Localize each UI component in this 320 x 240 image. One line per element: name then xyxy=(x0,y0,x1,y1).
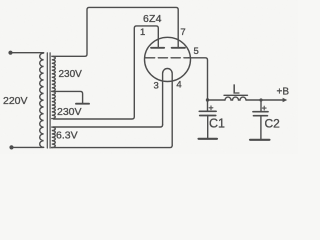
inductor L winding xyxy=(225,97,246,100)
cathode (dashed) xyxy=(146,57,189,59)
capacitor C1 top lead xyxy=(207,100,209,111)
svg-text:+B: +B xyxy=(277,87,290,98)
ground C1 xyxy=(199,138,218,140)
node primary top terminal xyxy=(8,51,12,55)
capacitor C1 bottom lead xyxy=(207,116,209,139)
output arrow +B xyxy=(283,98,288,102)
anode plate pin 1 xyxy=(151,47,164,49)
svg-text:7: 7 xyxy=(180,27,185,38)
center tap ground bar xyxy=(76,103,89,105)
svg-text:6.3V: 6.3V xyxy=(56,130,78,142)
svg-text:1: 1 xyxy=(140,27,145,38)
wire filter rail left xyxy=(208,99,226,101)
wire cathode pin 5 to filter input xyxy=(189,58,208,100)
svg-text:220V: 220V xyxy=(3,95,28,107)
node junction C2 xyxy=(259,98,262,101)
capacitor C2 top lead xyxy=(260,100,262,112)
svg-text:L: L xyxy=(233,81,240,96)
svg-text:3: 3 xyxy=(154,81,159,92)
wire primary top lead xyxy=(11,52,44,54)
tube envelope U1 xyxy=(145,37,191,81)
capacitor C2 bottom lead xyxy=(260,116,262,140)
node primary bottom terminal xyxy=(9,145,13,149)
svg-text:5: 5 xyxy=(194,46,199,57)
inductor L core bar xyxy=(224,94,248,96)
transformer secondary winding 230V upper xyxy=(52,56,56,91)
capacitor C2 plates xyxy=(253,111,268,113)
svg-text:C1: C1 xyxy=(209,117,225,131)
wire filter rail right xyxy=(246,99,283,101)
capacitor C1 plates xyxy=(199,110,216,112)
capacitor C2 plus sign xyxy=(262,106,266,110)
wire heater pin 4 to 6.3V bottom xyxy=(52,145,173,147)
capacitor C1 plus sign xyxy=(209,106,213,110)
svg-text:230V: 230V xyxy=(59,69,83,80)
svg-text:6Z4: 6Z4 xyxy=(143,13,162,25)
node junction C1 xyxy=(206,98,209,101)
wire heater pin 3 to 6.3V top xyxy=(53,125,162,127)
transformer secondary winding 230V lower xyxy=(52,91,56,118)
transformer T1 primary winding 220V xyxy=(40,53,44,147)
wire primary bottom lead xyxy=(12,146,44,148)
svg-text:4: 4 xyxy=(176,80,181,91)
svg-text:C2: C2 xyxy=(265,117,281,131)
svg-text:230V: 230V xyxy=(57,106,82,118)
transformer core xyxy=(47,53,50,148)
ground C2 xyxy=(250,139,270,141)
wire center tap xyxy=(54,91,83,103)
wire 230V top to anode pin 7 (top rail) xyxy=(53,7,178,56)
heater filament xyxy=(163,69,173,146)
anode plate pin 7 xyxy=(172,47,185,49)
transformer secondary winding 6.3V xyxy=(52,127,56,147)
wire 230V bottom to anode pin 1 xyxy=(54,26,159,119)
